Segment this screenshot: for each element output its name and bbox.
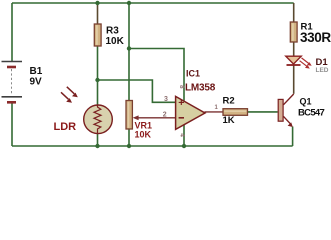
svg-text:LM358: LM358 <box>185 83 216 94</box>
svg-text:R2: R2 <box>223 96 235 107</box>
LDR <box>54 87 113 134</box>
wire top rail <box>12 2 294 4</box>
node junction top rail at R3 <box>95 1 99 5</box>
wire LDR top lead <box>97 80 99 106</box>
resistor R2 <box>223 96 248 126</box>
wire LED top lead <box>293 42 295 57</box>
node junction ground at LDR <box>95 144 99 148</box>
wire LDR bottom lead <box>97 134 99 147</box>
wire R1 feed <box>293 3 295 22</box>
potentiometer VR1 <box>126 101 175 140</box>
wire VR1 top feed <box>128 3 130 101</box>
battery B1 <box>2 62 43 103</box>
resistor R3 <box>94 24 124 47</box>
svg-text:2: 2 <box>163 112 167 119</box>
wire branch to op-amp pin 8 <box>129 49 184 101</box>
svg-text:8: 8 <box>178 85 185 89</box>
op-amp U1 LM358 <box>163 69 219 138</box>
wire bottom ground rail <box>12 145 293 147</box>
wire R3 top lead <box>97 3 99 24</box>
wire VR1 bottom lead <box>128 129 130 146</box>
LED D1 <box>286 56 329 74</box>
svg-text:4: 4 <box>179 133 186 137</box>
wire node A to op-amp pin 3 <box>98 80 176 102</box>
svg-text:+: + <box>178 97 184 109</box>
wire op-amp output to R2 <box>205 111 224 113</box>
node junction top rail at VR1 feed <box>127 1 131 5</box>
svg-text:9V: 9V <box>30 77 43 88</box>
svg-text:330R: 330R <box>300 30 331 45</box>
svg-text:Q1: Q1 <box>300 96 312 106</box>
svg-text:LDR: LDR <box>54 121 77 133</box>
node junction ground at VR1 <box>127 144 131 148</box>
wire left vertical to battery <box>11 3 13 61</box>
wire R2 to Q1 base <box>248 111 278 113</box>
svg-text:1K: 1K <box>223 115 235 126</box>
svg-text:10K: 10K <box>135 129 152 139</box>
svg-text:3: 3 <box>164 96 168 103</box>
svg-text:10K: 10K <box>106 36 125 47</box>
wire LED cathode to Q1 collector <box>293 65 295 94</box>
transistor Q1 <box>278 94 324 127</box>
svg-text:B1: B1 <box>30 66 43 77</box>
node junction ground at pin4 <box>182 144 186 148</box>
svg-text:IC1: IC1 <box>186 69 200 79</box>
svg-text:BC547: BC547 <box>298 107 324 118</box>
wire op-amp pin 4 to ground <box>183 125 185 146</box>
wire battery negative down <box>11 103 13 146</box>
node A junction <box>95 78 99 82</box>
wire R3 bottom lead to node A <box>97 46 99 80</box>
node junction pin8 branch <box>127 46 131 50</box>
svg-text:LED: LED <box>316 67 329 74</box>
wire Q1 emitter to ground <box>292 127 294 147</box>
resistor R1 <box>290 21 331 45</box>
svg-text:R3: R3 <box>106 26 119 37</box>
